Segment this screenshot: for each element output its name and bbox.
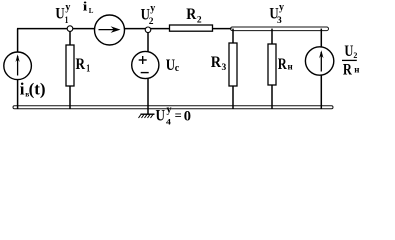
svg-text:R: R: [211, 54, 222, 71]
wire R3 branch: [232, 29, 234, 109]
current source i_L: [95, 15, 125, 45]
svg-text:у: у: [150, 3, 155, 14]
current source i_b(t): [4, 52, 32, 80]
svg-text:i: i: [83, 0, 88, 14]
svg-text:U: U: [344, 43, 353, 60]
svg-text:у: у: [167, 104, 172, 115]
svg-text:R: R: [343, 62, 352, 79]
wire left vertical: [17, 29, 19, 109]
svg-text:с: с: [175, 63, 180, 74]
wire top horizontal node1-node2: [17, 28, 232, 30]
svg-text:4: 4: [166, 116, 172, 125]
svg-text:у: у: [65, 2, 70, 13]
resistor R1: [66, 45, 74, 86]
svg-text:U: U: [156, 108, 166, 125]
node 2 terminal circle: [145, 27, 151, 33]
svg-text:i: i: [20, 80, 25, 99]
svg-text:1: 1: [65, 16, 69, 26]
ground: [139, 114, 155, 118]
svg-text:3: 3: [277, 16, 282, 26]
svg-text:R: R: [278, 56, 287, 73]
voltage source Uc: [132, 51, 159, 78]
wire Uc branch + ground stub: [147, 30, 149, 114]
resistor Rn: [268, 44, 276, 85]
dependent source U2/Rn: [305, 47, 333, 75]
svg-text:=: =: [175, 108, 182, 122]
svg-text:2: 2: [149, 17, 154, 27]
wire right source branch: [320, 29, 322, 109]
resistor R3: [229, 43, 237, 86]
wire R1 branch: [69, 29, 71, 109]
svg-text:н: н: [354, 65, 359, 75]
svg-text:L: L: [89, 7, 94, 15]
svg-text:R: R: [186, 6, 196, 23]
svg-text:3: 3: [222, 63, 227, 73]
svg-text:R: R: [76, 56, 86, 73]
svg-text:н: н: [288, 61, 293, 71]
node 4 bus bar (bottom stadium): [13, 106, 333, 109]
svg-text:(t): (t): [29, 80, 46, 99]
svg-text:1: 1: [86, 64, 90, 75]
svg-text:2: 2: [353, 51, 357, 60]
node 1 terminal circle: [67, 26, 73, 32]
svg-text:2: 2: [197, 15, 202, 25]
svg-text:у: у: [279, 2, 284, 13]
svg-text:0: 0: [184, 108, 191, 124]
svg-text:U: U: [55, 5, 65, 22]
resistor R2: [170, 25, 213, 31]
node 3 bus bar (top stadium): [231, 27, 329, 31]
wire Rn branch: [271, 29, 273, 109]
